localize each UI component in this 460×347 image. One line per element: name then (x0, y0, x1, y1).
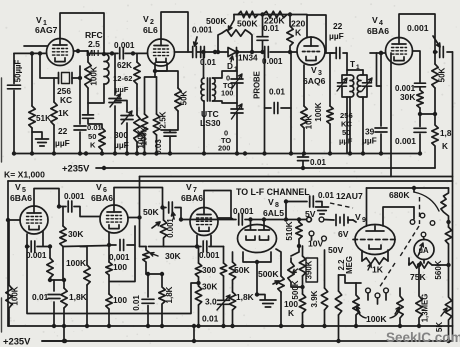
label 0.001 screen (395, 84, 416, 93)
wire V1 grid line (14, 52, 47, 54)
resistor 680K right (441, 188, 449, 222)
resistor 1K (51, 102, 57, 125)
label K=X1000 (4, 170, 45, 180)
battery 6V filament (324, 215, 353, 226)
wire V5 out (59, 206, 66, 208)
svg-text:1,8K: 1,8K (69, 292, 87, 302)
svg-text:D: D (227, 62, 233, 71)
svg-text:1,8: 1,8 (440, 129, 452, 138)
svg-text:100K: 100K (66, 258, 86, 268)
dash ganged switch diag (399, 226, 419, 258)
node +235V top feed dot (102, 166, 106, 170)
svg-text:1,8K: 1,8K (236, 292, 254, 302)
potentiometer 50K V6 (152, 208, 167, 247)
tube V8 6AL5 envelope (238, 225, 277, 253)
resistor misc 338 (335, 291, 341, 315)
resistor 100K V2 (141, 114, 147, 135)
svg-text:30K: 30K (165, 251, 182, 261)
svg-text:6BA6: 6BA6 (367, 26, 389, 36)
wire meter bottom (423, 260, 425, 264)
resistor 1.8K V5 (61, 288, 67, 308)
ground 0.01 V8 (316, 207, 329, 214)
label 680K (389, 190, 410, 200)
node 100K dots (85, 324, 89, 328)
node det row dots (260, 12, 292, 16)
resistor 5K (445, 265, 451, 341)
wire separator line B full width (8, 180, 453, 182)
node RFC top dot (102, 52, 106, 56)
svg-text:µµF: µµF (114, 140, 129, 150)
wire V8 cath box (243, 252, 271, 295)
node 0.01 bus dots (301, 166, 305, 170)
resistor 3.9K (321, 288, 327, 310)
node V6 cath dots (107, 243, 111, 247)
meter uA (414, 240, 434, 260)
label +235V bottom (3, 336, 31, 347)
wire T1 sec column (361, 70, 363, 99)
wire 100K V2 column (145, 77, 157, 154)
label 100K V3 (314, 102, 323, 121)
svg-text:6BA6: 6BA6 (91, 193, 113, 203)
transformer core (208, 78, 211, 101)
wire V7 out (218, 217, 231, 219)
svg-text:3.9K: 3.9K (310, 290, 319, 307)
svg-text:µµF: µµF (329, 31, 344, 41)
label 50 T1 (342, 128, 350, 137)
wire 0.01 column V7 (223, 247, 225, 327)
tube V8 internals (245, 220, 270, 241)
svg-text:6AL5: 6AL5 (263, 208, 284, 218)
capacitor 0.01 bus link (298, 154, 309, 169)
resistor 100 V6 a (106, 262, 112, 275)
node V6 bottom dots (146, 324, 164, 328)
svg-text:30K: 30K (400, 92, 415, 102)
node 75K dots (446, 263, 450, 267)
label V3 (311, 65, 322, 77)
node 1.3meg dots (417, 263, 421, 328)
svg-text:22: 22 (333, 21, 343, 31)
svg-text:SeekIC.com: SeekIC.com (386, 330, 460, 345)
label 100 b (113, 295, 127, 305)
node 50K bus dot (84, 151, 104, 155)
node V6 plate cap node (160, 205, 164, 209)
svg-text:V: V (96, 182, 102, 192)
wire utc sec top (213, 71, 238, 103)
label 100K below V5 (66, 258, 86, 268)
wire crystal feed (40, 53, 59, 78)
capacitor variable T1 pri (337, 75, 350, 97)
wire V4 plate loop (399, 14, 435, 52)
svg-text:30K: 30K (202, 282, 217, 292)
label V8 (268, 197, 279, 209)
label 6AG7 (35, 25, 58, 35)
capacitor 0.01 probe (274, 103, 278, 114)
label V4 (372, 15, 383, 27)
wire det top row (234, 14, 307, 16)
pot arrow B (390, 307, 400, 318)
svg-text:50K: 50K (438, 67, 447, 82)
svg-text:50K: 50K (143, 207, 160, 217)
label 50 V1 (88, 132, 96, 141)
capacitor 0.001 V7 out (231, 214, 251, 225)
node V5 plate node (57, 204, 61, 208)
svg-text:1K: 1K (372, 265, 384, 275)
inductor T1 primary (350, 75, 354, 97)
wire jack stems (368, 293, 386, 304)
svg-text:30K: 30K (68, 229, 83, 239)
tube V9 envelope (355, 225, 395, 255)
node +235V stub (42, 339, 67, 343)
wire bottom ground bus (8, 325, 453, 327)
wire V7 plate loop (204, 191, 231, 219)
label 220 vert (291, 19, 306, 29)
resistor 100K pot A (353, 283, 359, 326)
wire 51 chain below V5 (50, 247, 64, 281)
svg-text:510K: 510K (285, 221, 294, 240)
label 12AU7 (336, 191, 363, 201)
node 50K bottom dot (433, 112, 437, 116)
wire 39uuF cap column (380, 53, 382, 154)
capacitor 0.001 det (265, 47, 269, 58)
wire 390K column (302, 246, 304, 326)
wire 50K V2 column (155, 71, 178, 130)
node 30K node dot (196, 281, 200, 285)
label 0.01 V6 (132, 295, 141, 311)
wire 100K V3 column (326, 53, 336, 154)
wire +235V bus top section (96, 167, 435, 169)
wire V2 out line (175, 51, 193, 53)
resistor 50K V1 (99, 128, 105, 150)
svg-text:0,001: 0,001 (109, 253, 130, 262)
label uuF V3 (329, 31, 344, 41)
capacitor 0.001 V5 out (68, 201, 72, 212)
wire meter top (423, 237, 426, 240)
svg-text:V: V (143, 14, 149, 24)
svg-text:12-62: 12-62 (113, 74, 132, 83)
capacitor variable 300uuF (121, 111, 133, 124)
label V9 (355, 212, 366, 224)
svg-text:10V: 10V (308, 239, 324, 249)
node 30K dot (418, 112, 422, 116)
svg-text:51K: 51K (36, 114, 51, 123)
resistor 100K RFC (85, 62, 91, 88)
label 0.001 V5 cath (26, 251, 47, 260)
svg-text:0.01: 0.01 (269, 88, 285, 97)
label 0.001 V6 cath (109, 253, 130, 262)
svg-text:V: V (268, 197, 274, 207)
dash ganged switch vert (419, 197, 421, 224)
svg-text:6BA6: 6BA6 (181, 193, 203, 203)
pot arrow 5K (441, 308, 447, 316)
node trim dot (235, 50, 239, 54)
label uuF 39 (362, 136, 377, 146)
label 100K under (284, 299, 298, 318)
wire 3.9K column (324, 250, 326, 326)
node 3.9K dots (322, 324, 326, 328)
jack circle c (384, 288, 389, 293)
node 62K top dot (131, 51, 135, 55)
wire V1 out to cap (88, 52, 118, 54)
tube V9 internals (353, 226, 397, 249)
wire bottom +235V bus (42, 340, 453, 342)
label uuF 300 (114, 140, 129, 150)
svg-text:0.01: 0.01 (87, 123, 103, 132)
label 22 (58, 126, 68, 136)
wire 0.01-50K branch (88, 103, 102, 154)
label 0.001 det (262, 57, 283, 66)
resistor 100K mixer (134, 115, 140, 142)
label KC (60, 95, 72, 105)
label KC T1 (341, 120, 352, 129)
wire 300 column (198, 247, 200, 327)
svg-text:+235V: +235V (3, 336, 31, 347)
wire T1 top feed (347, 53, 363, 70)
wire caps to det node (205, 51, 229, 53)
resistor 62K (134, 62, 140, 84)
node 50uuF bus dot (12, 151, 16, 155)
label uuF V1 (55, 138, 70, 148)
wire separator line A (140, 176, 453, 178)
label RFC (85, 30, 103, 40)
wire 62K column (136, 53, 138, 153)
label uuF 12-62 (115, 85, 129, 94)
wire misc column 338 (338, 275, 340, 341)
label T1 (350, 60, 360, 71)
label 10K (305, 114, 314, 129)
wire pots link (339, 275, 357, 283)
label 0.001 V1-V2 (114, 41, 135, 50)
wire V6 out (128, 217, 140, 219)
potentiometer 500K pot1 (273, 276, 284, 292)
wire V1 plate loop (60, 13, 104, 54)
svg-text:2.5K: 2.5K (159, 111, 168, 128)
tube V5 6BA6 (20, 206, 48, 234)
wire V2 cathode drop (155, 63, 167, 77)
svg-text:0.001: 0.001 (199, 251, 220, 260)
node V8 box dot (255, 260, 259, 264)
wire V6 grid (99, 216, 101, 218)
svg-text:0.01: 0.01 (200, 58, 216, 67)
resistor 390K (299, 256, 305, 276)
node 62K bus dot (135, 151, 139, 155)
jack 5V circles (307, 217, 324, 222)
label 0.01 bus (310, 158, 326, 167)
resistor 1.3MEG (416, 265, 422, 326)
dash ganged switch diag2 (379, 263, 395, 288)
node 500K pot1 dots (279, 324, 283, 328)
svg-text:K: K (90, 141, 96, 150)
svg-text:12AU7: 12AU7 (336, 191, 363, 201)
label +235V top (62, 163, 90, 174)
potentiometer 30K V6 (143, 247, 158, 275)
node V5 cath dots (25, 244, 52, 248)
svg-text:0.001: 0.001 (26, 251, 47, 260)
label 3.9K (310, 290, 319, 307)
capacitor 0.01 V2 out b (201, 47, 205, 58)
jack 10V circles (309, 231, 326, 241)
label 256 T1 (340, 111, 353, 120)
svg-text:K= X1,000: K= X1,000 (4, 170, 45, 180)
resistor 30K V5 (60, 226, 66, 247)
wire V6 cathode drops (109, 226, 135, 245)
capacitor 0.01 V6 (142, 274, 154, 326)
label 6BA6 V4 (367, 26, 389, 36)
label 6BA6 V6 (91, 193, 113, 203)
wire diode out (237, 51, 263, 53)
label 1.8K V4 (440, 129, 452, 151)
node trim bus dots (235, 151, 247, 155)
svg-text:3.0: 3.0 (205, 297, 217, 307)
label 51K (36, 114, 51, 123)
resistor 1.8K V4 (432, 114, 438, 168)
svg-text:V: V (15, 182, 21, 192)
node below V5 dots (48, 278, 66, 282)
node V2 bottom bus dots (142, 151, 172, 155)
node V6 out dot (137, 215, 141, 219)
node 680K bottom dot (446, 220, 450, 224)
wire 6V link (353, 220, 356, 222)
label PROBE (253, 71, 262, 99)
node 1.8K dots (52, 324, 66, 343)
resistor 100K V8 (299, 294, 305, 313)
svg-text:1N34: 1N34 (238, 54, 258, 63)
label 100K V2 (137, 129, 146, 148)
wire V2 plate loop (161, 12, 188, 52)
label 0.01 V8 (318, 191, 334, 200)
node 39uuF dots (379, 51, 383, 156)
node V1 grid junctions (30, 51, 42, 55)
jack circle a (366, 288, 371, 293)
wire trimmer 300 column (115, 101, 127, 154)
node pots dots (354, 324, 402, 328)
resistor 51K (29, 106, 35, 128)
node V1 plate dot (76, 49, 80, 53)
wire feedback loop V5 (27, 247, 199, 314)
label 100K RFC (90, 66, 99, 85)
svg-text:LS30: LS30 (200, 118, 221, 128)
svg-text:300: 300 (114, 130, 128, 140)
label 0.01 utc (200, 58, 216, 67)
label 30K V5 (68, 229, 83, 239)
svg-text:50V: 50V (328, 245, 344, 255)
node 5K dots (446, 339, 450, 343)
label 3.0 (205, 297, 217, 307)
svg-text:100K: 100K (137, 129, 146, 148)
svg-text:200: 200 (218, 144, 230, 153)
label 39 (365, 127, 375, 137)
wire arrow 0.001 V4 (433, 36, 440, 47)
label 12-62 (113, 74, 132, 83)
label 256 (57, 86, 71, 96)
resistor 500K top (238, 11, 258, 17)
label 0.001 V7 cath (199, 251, 220, 260)
label 6AQ6 (303, 76, 326, 86)
resistor 220K vertical (287, 15, 293, 53)
label 6BA6 V5 (10, 193, 32, 203)
capacitor 0.01 V7 var (217, 295, 230, 310)
svg-text:0.01: 0.01 (202, 314, 219, 324)
label 100K pots (366, 314, 387, 324)
label 50K V2 (180, 90, 189, 105)
potentiometer 500K wiper arm (229, 15, 235, 31)
tube V4 6BA6 (386, 38, 413, 65)
inductor T1 secondary (357, 75, 361, 97)
label V5 (15, 182, 26, 194)
tube V3 6AQ6 (297, 37, 325, 65)
node 0.01 col bus dot (221, 324, 225, 328)
label 0.001 V4 (407, 23, 429, 33)
node V7 cath dots (195, 244, 199, 248)
resistor 1.8K V8 (229, 292, 235, 310)
tube V6 6BA6 (100, 205, 128, 233)
svg-text:0.01: 0.01 (32, 292, 49, 302)
resistor 10K V3 (301, 106, 307, 128)
resistor 510K (296, 222, 302, 239)
scan edge mark lower left (1, 298, 3, 332)
label 100K far left (11, 286, 20, 305)
label V1 (36, 15, 47, 27)
crystal 256KC (59, 73, 73, 84)
wire 500K pot1 column (276, 249, 281, 326)
wire V3 cathode columns (303, 65, 305, 154)
svg-text:0.001: 0.001 (192, 26, 213, 35)
node pot ends dots (216, 50, 254, 54)
resistor 100 V6 b (106, 294, 112, 309)
transformer UTC LS30 secondary (213, 78, 216, 101)
svg-text:100K: 100K (366, 314, 387, 324)
label LS30 (200, 118, 221, 128)
wire crystal right (72, 77, 80, 79)
wire V8 out right (264, 202, 286, 220)
node 100 dots (107, 324, 111, 328)
svg-text:9: 9 (362, 217, 366, 224)
jack circle b (375, 293, 380, 298)
capacitor 0.001 V4 bottom (414, 114, 426, 154)
capacitor 22uuF (74, 126, 86, 130)
resistor 300 V7 (195, 263, 201, 277)
node 300 col bus dot (196, 324, 200, 328)
svg-text:100: 100 (113, 262, 127, 272)
wire 0.01 cap bottom V5 (53, 280, 55, 326)
svg-text:1: 1 (356, 64, 360, 71)
node 50K V8 dots (230, 324, 234, 328)
resistor col V7b (220, 263, 226, 276)
potentiometer 500K element (218, 30, 252, 52)
label 0.03 (154, 139, 163, 155)
svg-text:µµF: µµF (115, 85, 129, 94)
svg-text:0.01: 0.01 (318, 191, 334, 200)
label 0.001 V6 out (166, 218, 175, 238)
tube V1 6AG7 (47, 39, 74, 66)
label 30K V7 (202, 282, 217, 292)
label 0.01 V5 (32, 292, 49, 302)
label 1K V9 (372, 265, 384, 275)
svg-text:500K: 500K (291, 280, 300, 299)
svg-text:K: K (295, 28, 302, 38)
svg-text:6BA6: 6BA6 (10, 193, 32, 203)
wire V1 screen line (24, 45, 48, 47)
label 50K V8 (234, 265, 251, 275)
label 2.5K (159, 111, 168, 128)
wire V4 grid loop (377, 53, 382, 86)
wire probe right column (290, 52, 292, 154)
wire arrow 0.001 V6 (172, 212, 176, 219)
wire 1.8K bottom V5 (63, 280, 65, 341)
capacitor 0.01 V1 cathode (83, 115, 94, 118)
wire V5-V6 cathode link (63, 246, 109, 247)
resistor 220K top (263, 11, 287, 17)
watermark SeekIC.com (386, 330, 460, 345)
